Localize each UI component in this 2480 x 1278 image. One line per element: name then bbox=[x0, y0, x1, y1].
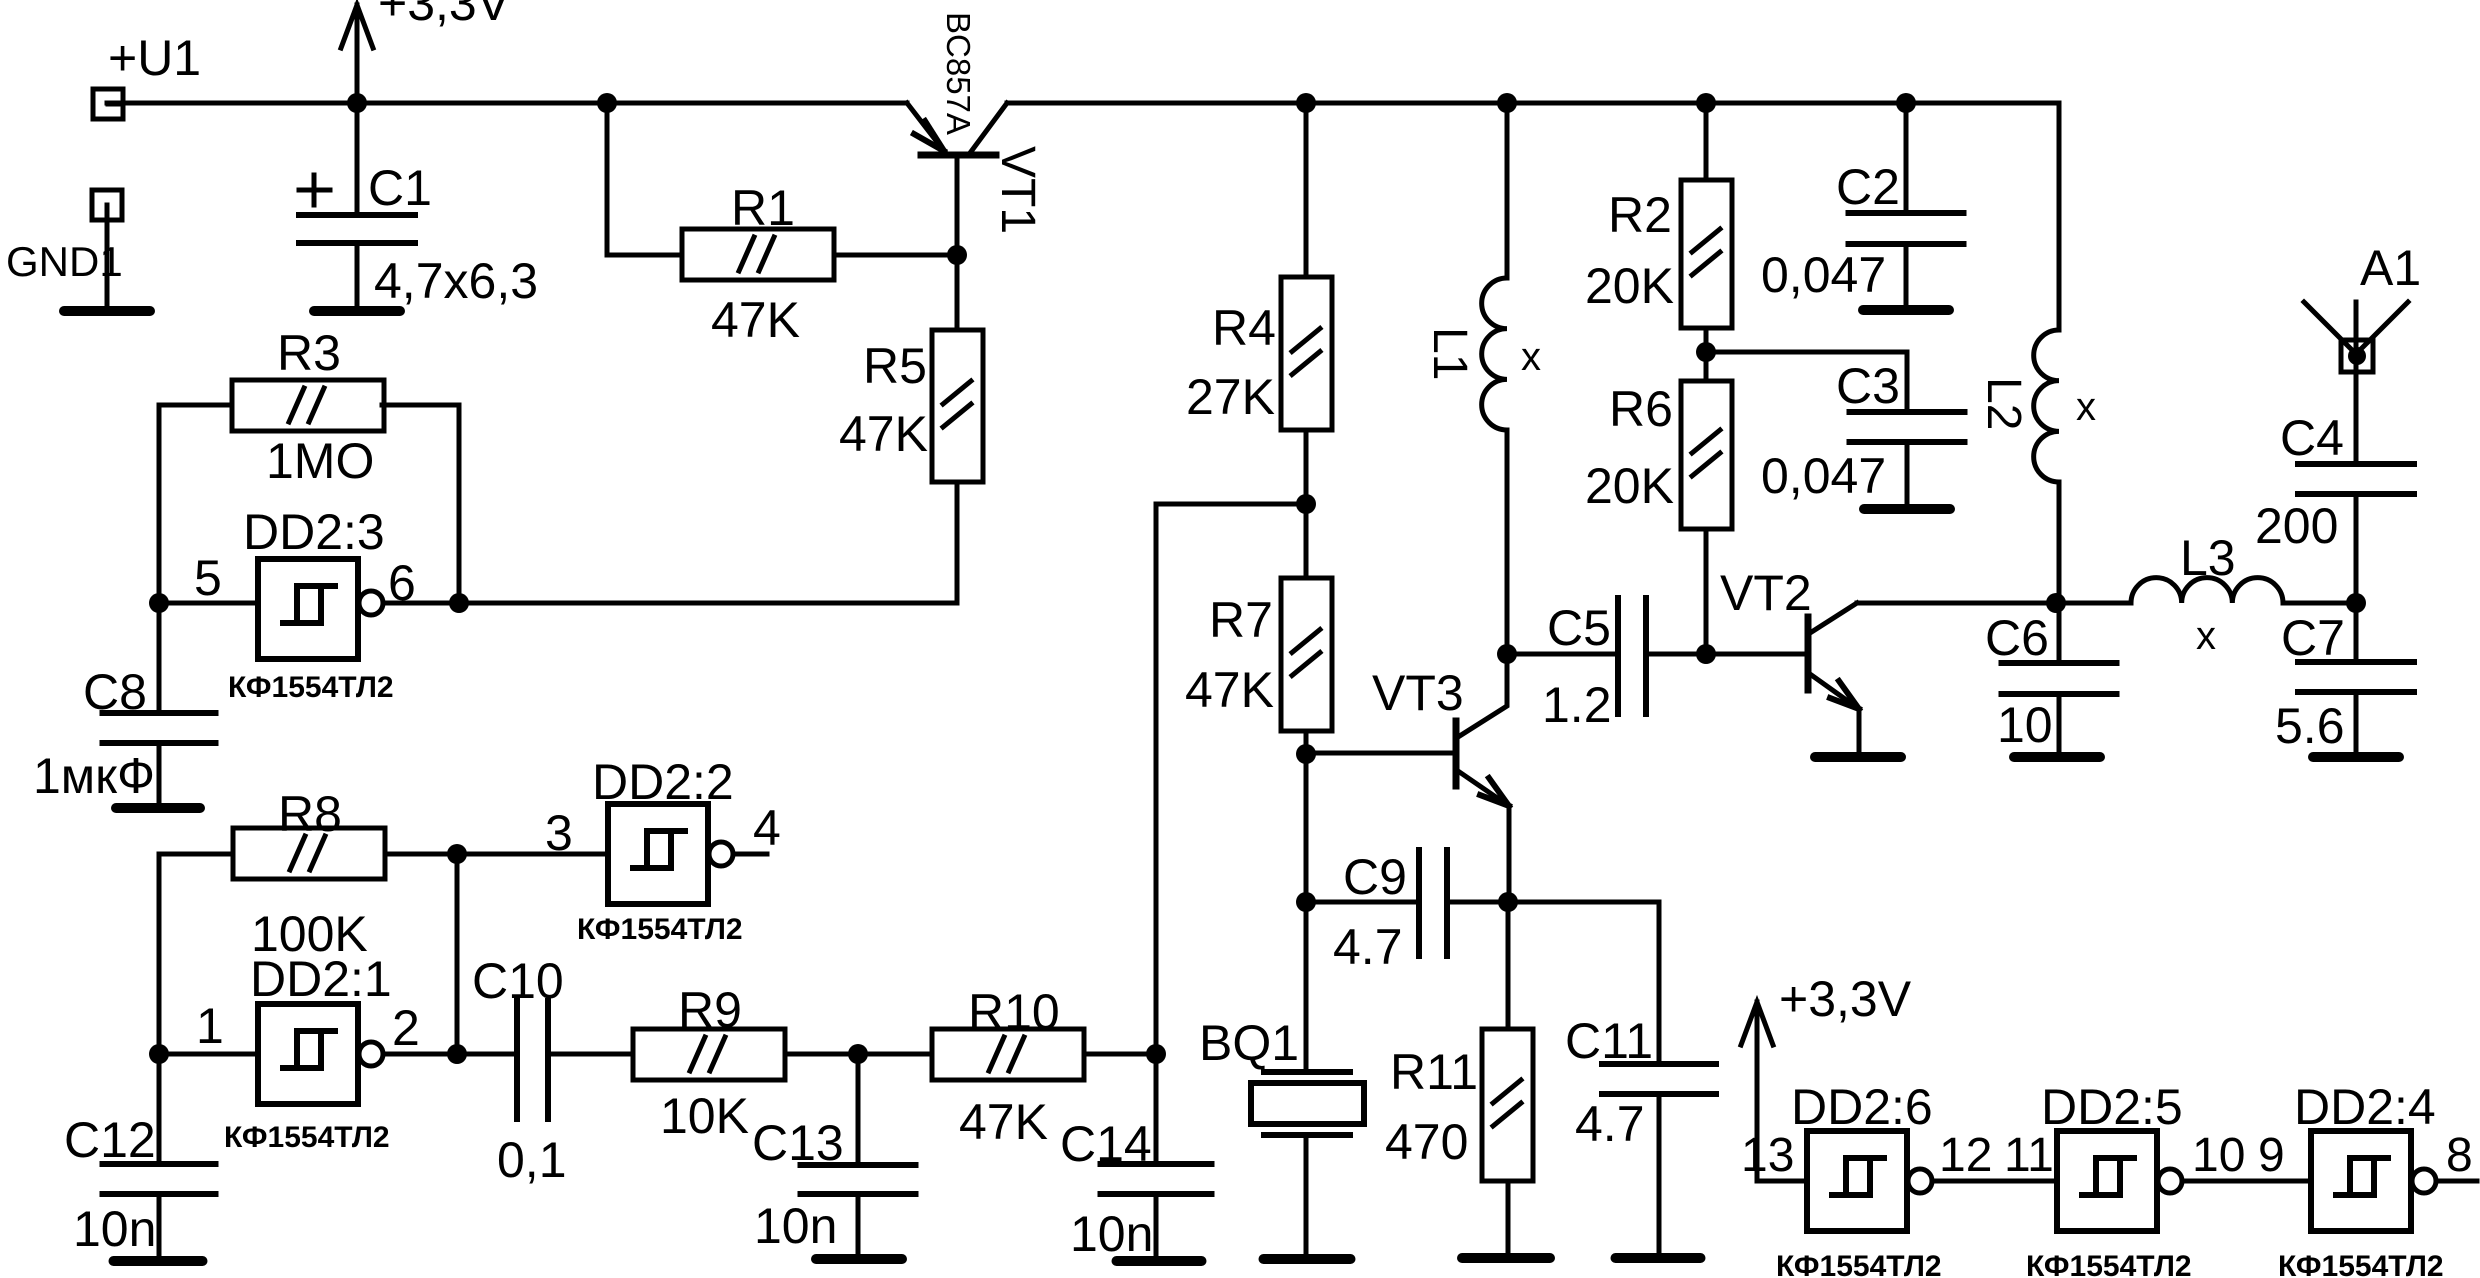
svg-text:12: 12 bbox=[1939, 1129, 1992, 1182]
svg-text:R5: R5 bbox=[863, 338, 927, 394]
ground C13 bbox=[816, 1254, 902, 1264]
wire VT2 base bbox=[1706, 652, 1806, 657]
svg-text:27K: 27K bbox=[1186, 369, 1275, 425]
ground C7 bbox=[2313, 752, 2399, 762]
svg-text:6: 6 bbox=[388, 555, 416, 611]
capacitor C14 bbox=[1101, 1161, 1212, 1167]
svg-text:R7: R7 bbox=[1209, 592, 1273, 648]
capacitor C11 bbox=[1602, 1061, 1716, 1067]
schmitt DD2:3 bbox=[258, 559, 358, 659]
svg-text:КФ1554ТЛ2: КФ1554ТЛ2 bbox=[577, 913, 743, 946]
svg-text:10n: 10n bbox=[73, 1201, 156, 1257]
svg-text:0,1: 0,1 bbox=[497, 1132, 567, 1188]
svg-text:2: 2 bbox=[392, 1000, 420, 1056]
svg-text:0,047: 0,047 bbox=[1761, 247, 1886, 303]
svg-text:L1: L1 bbox=[1423, 327, 1476, 380]
svg-text:R10: R10 bbox=[968, 984, 1060, 1040]
svg-text:+U1: +U1 bbox=[108, 30, 201, 86]
wire C5 right bbox=[1646, 652, 1706, 657]
resistor R7 bbox=[1281, 578, 1332, 731]
terminal +U1 bbox=[93, 89, 123, 119]
ground C14 bbox=[1117, 1256, 1202, 1266]
wire R2 to R6 bbox=[1704, 328, 1709, 381]
svg-text:R4: R4 bbox=[1212, 300, 1276, 356]
svg-text:8: 8 bbox=[2446, 1129, 2473, 1182]
wire C2 lead bbox=[1904, 103, 1909, 213]
inductor L1 bbox=[1505, 103, 1510, 278]
svg-text:10n: 10n bbox=[1070, 1206, 1153, 1262]
wire C9 left lead bbox=[1306, 900, 1419, 905]
svg-text:3: 3 bbox=[545, 805, 573, 861]
svg-text:+3,3V: +3,3V bbox=[378, 0, 511, 31]
node emitter net bbox=[1498, 892, 1518, 912]
node R9/R10/C13 bbox=[848, 1044, 868, 1064]
ground C12 bbox=[114, 1256, 203, 1266]
svg-text:C11: C11 bbox=[1565, 1013, 1653, 1069]
wire jog to C14 rail bbox=[1156, 504, 1306, 1054]
wire C10 to R9 bbox=[548, 1052, 633, 1057]
svg-text:4.7: 4.7 bbox=[1333, 919, 1403, 975]
ground GND1 bbox=[64, 306, 150, 316]
wire R7 top bbox=[1304, 504, 1309, 578]
svg-text:11: 11 bbox=[2004, 1129, 2054, 1182]
svg-text:R6: R6 bbox=[1609, 381, 1673, 437]
svg-text:10: 10 bbox=[1997, 697, 2053, 753]
transistor VT3 bbox=[1453, 721, 1460, 786]
inductor L2 bbox=[2034, 330, 2059, 482]
wire pin 10-9 bbox=[2182, 1179, 2311, 1184]
resistor R4 bbox=[1281, 277, 1332, 430]
schmitt DD2:4 bbox=[2311, 1131, 2411, 1231]
svg-text:КФ1554ТЛ2: КФ1554ТЛ2 bbox=[228, 671, 394, 704]
ground R11 bbox=[1462, 1253, 1550, 1263]
svg-text:C12: C12 bbox=[64, 1112, 156, 1168]
svg-text:10: 10 bbox=[2192, 1129, 2245, 1182]
capacitor C12 bbox=[103, 1161, 216, 1167]
node DD2:1 in bbox=[149, 1044, 169, 1064]
node L3/C4/C7 bbox=[2346, 593, 2366, 613]
wire C5 left bbox=[1507, 652, 1618, 657]
bubble DD2:3 bbox=[359, 591, 383, 615]
wire C6 lead bbox=[2057, 603, 2062, 662]
svg-text:10n: 10n bbox=[754, 1198, 837, 1254]
node R7/VT3 bbox=[1296, 744, 1316, 764]
svg-text:47K: 47K bbox=[839, 406, 928, 462]
svg-text:GND1: GND1 bbox=[6, 238, 123, 285]
node R2/R6 bbox=[1696, 342, 1716, 362]
svg-text:C3: C3 bbox=[1836, 358, 1900, 414]
bubble DD2:4 bbox=[2412, 1169, 2436, 1193]
node rail R1 bbox=[597, 93, 617, 113]
bubble DD2:6 bbox=[1908, 1169, 1932, 1193]
svg-text:R2: R2 bbox=[1608, 187, 1672, 243]
node L2/C6/L3 bbox=[2046, 593, 2066, 613]
resistor R8 bbox=[233, 828, 385, 879]
wire pin 6 bbox=[383, 601, 459, 606]
wire R8 right bbox=[385, 852, 457, 857]
svg-text:C7: C7 bbox=[2281, 610, 2345, 666]
svg-text:A1: A1 bbox=[2360, 240, 2421, 296]
power +3,3V top bbox=[355, 5, 360, 103]
svg-text:R3: R3 bbox=[277, 325, 341, 381]
svg-text:DD2:5: DD2:5 bbox=[2041, 1079, 2183, 1135]
node R8/DD2:2 bbox=[447, 844, 467, 864]
node R10/C14 bbox=[1146, 1044, 1166, 1064]
svg-text:5.6: 5.6 bbox=[2275, 698, 2345, 754]
svg-text:9: 9 bbox=[2258, 1129, 2285, 1182]
capacitor C7 bbox=[2298, 659, 2414, 665]
resistor R1 bbox=[682, 229, 834, 280]
svg-text:1: 1 bbox=[196, 998, 224, 1054]
node L1/VT3/C5 bbox=[1497, 644, 1517, 664]
ground C11 bbox=[1616, 1253, 1701, 1263]
svg-text:+3,3V: +3,3V bbox=[1779, 971, 1912, 1027]
ground C8 bbox=[116, 803, 200, 813]
svg-text:R8: R8 bbox=[278, 786, 342, 842]
wire VT3 base bbox=[1306, 751, 1456, 756]
inductor L3 bbox=[2056, 601, 2131, 606]
bubble DD2:2 bbox=[709, 842, 733, 866]
node rail R2 bbox=[1696, 93, 1716, 113]
svg-text:5: 5 bbox=[194, 550, 222, 606]
wire pin 1 bbox=[159, 1052, 258, 1057]
svg-text:L2: L2 bbox=[1977, 377, 2030, 430]
svg-text:C2: C2 bbox=[1836, 159, 1900, 215]
capacitor C2 bbox=[1849, 210, 1964, 216]
capacitor C1 bbox=[299, 212, 415, 218]
svg-text:4.7: 4.7 bbox=[1575, 1096, 1645, 1152]
wire +U1 to VT1 bbox=[107, 101, 907, 106]
transistor VT2 bbox=[1805, 617, 1812, 690]
wire R5 to DD2:3 out bbox=[459, 482, 957, 603]
wire top rail right bbox=[1007, 103, 2059, 330]
node rail L1 bbox=[1497, 93, 1517, 113]
svg-text:L3: L3 bbox=[2180, 530, 2236, 586]
wire C9 right lead bbox=[1447, 900, 1509, 905]
svg-text:200: 200 bbox=[2255, 498, 2338, 554]
svg-text:47K: 47K bbox=[1185, 662, 1274, 718]
wire pin 5 bbox=[159, 601, 258, 606]
capacitor C9 bbox=[1416, 850, 1422, 956]
wire pin 4 bbox=[733, 852, 767, 857]
svg-text:C1: C1 bbox=[368, 160, 432, 216]
capacitor C8 bbox=[103, 710, 216, 716]
wire C13 lead bbox=[856, 1054, 861, 1165]
svg-text:1.2: 1.2 bbox=[1542, 677, 1612, 733]
wire R1 to base bbox=[834, 253, 957, 258]
wire R11 top bbox=[1506, 902, 1511, 1029]
svg-text:DD2:2: DD2:2 bbox=[592, 754, 734, 810]
node rail R4 bbox=[1296, 93, 1316, 113]
svg-text:R11: R11 bbox=[1390, 1044, 1478, 1100]
svg-text:BQ1: BQ1 bbox=[1199, 1015, 1299, 1071]
wire to R10 bbox=[858, 1052, 932, 1057]
capacitor C6 bbox=[2002, 660, 2117, 666]
node DD2:3 in bbox=[149, 593, 169, 613]
wire pin 12-11 bbox=[1932, 1179, 2057, 1184]
svg-text:R1: R1 bbox=[731, 180, 795, 236]
svg-text:DD2:1: DD2:1 bbox=[250, 951, 392, 1007]
wire pin 8 bbox=[2436, 1179, 2477, 1184]
svg-text:1MO: 1MO bbox=[266, 433, 374, 489]
resistor R5 bbox=[932, 330, 983, 482]
svg-text:470: 470 bbox=[1385, 1114, 1468, 1170]
wire C12 lead bbox=[157, 1054, 162, 1164]
wire R6 bottom bbox=[1704, 529, 1709, 654]
svg-text:BC857A: BC857A bbox=[940, 12, 977, 135]
bubble DD2:1 bbox=[359, 1042, 383, 1066]
svg-text:КФ1554ТЛ2: КФ1554ТЛ2 bbox=[2278, 1250, 2444, 1278]
ground BQ1 bbox=[1264, 1254, 1351, 1264]
wire C7 lead bbox=[2354, 603, 2359, 662]
node R4/R7 bbox=[1296, 494, 1316, 514]
ground C2 bbox=[1863, 305, 1949, 315]
node VT1 base bbox=[947, 245, 967, 265]
svg-text:10K: 10K bbox=[660, 1088, 749, 1144]
svg-text:C4: C4 bbox=[2280, 410, 2344, 466]
svg-text:13: 13 bbox=[1741, 1129, 1794, 1182]
wire to C11 bbox=[1508, 902, 1659, 1064]
ground VT2 bbox=[1815, 752, 1901, 762]
svg-text:DD2:3: DD2:3 bbox=[243, 504, 385, 560]
wire R11 bottom bbox=[1506, 1181, 1511, 1255]
capacitor C4 bbox=[2298, 461, 2414, 467]
svg-text:x: x bbox=[2196, 614, 2216, 658]
svg-text:C9: C9 bbox=[1343, 849, 1407, 905]
power +3,3V bottom bbox=[1755, 1002, 1760, 1181]
resistor R2 bbox=[1681, 180, 1732, 328]
svg-text:DD2:6: DD2:6 bbox=[1791, 1079, 1933, 1135]
wire VT2 collector bbox=[1857, 601, 2056, 606]
wire R8 left bbox=[159, 854, 233, 1054]
wire pin 13 bbox=[1757, 1179, 1807, 1184]
svg-text:20K: 20K bbox=[1585, 258, 1674, 314]
ground C1 bbox=[314, 306, 400, 316]
svg-text:4: 4 bbox=[753, 800, 781, 856]
wire R7 bottom bbox=[1304, 731, 1309, 754]
svg-text:1мкФ: 1мкФ bbox=[33, 748, 155, 804]
capacitor C10 bbox=[514, 1001, 520, 1119]
wire DD2:2 node down bbox=[455, 854, 460, 1054]
schmitt DD2:1 bbox=[258, 1004, 358, 1104]
svg-text:0,047: 0,047 bbox=[1761, 448, 1886, 504]
wire R3 right bbox=[382, 405, 459, 603]
wire R4 top bbox=[1304, 103, 1309, 277]
svg-text:20K: 20K bbox=[1585, 458, 1674, 514]
wire R3 left bbox=[159, 405, 232, 603]
wire to C10 bbox=[457, 1052, 517, 1057]
svg-text:x: x bbox=[2076, 385, 2096, 429]
svg-text:DD2:4: DD2:4 bbox=[2294, 1079, 2436, 1135]
ground C6 bbox=[2014, 752, 2100, 762]
resistor R11 bbox=[1482, 1029, 1533, 1181]
node DD2:1 out bbox=[447, 1044, 467, 1064]
wire R9 right bbox=[785, 1052, 858, 1057]
svg-text:КФ1554ТЛ2: КФ1554ТЛ2 bbox=[224, 1121, 390, 1154]
wire C1 lead bbox=[355, 103, 360, 215]
svg-text:C5: C5 bbox=[1547, 600, 1611, 656]
polarity plus C1 bbox=[299, 188, 330, 193]
svg-text:VT2: VT2 bbox=[1720, 565, 1812, 621]
wire R10 right bbox=[1084, 1052, 1156, 1057]
resistor R9 bbox=[633, 1029, 785, 1080]
svg-text:КФ1554ТЛ2: КФ1554ТЛ2 bbox=[1776, 1250, 1942, 1278]
capacitor C5 bbox=[1615, 598, 1621, 714]
resistor R10 bbox=[932, 1029, 1084, 1080]
svg-text:47K: 47K bbox=[959, 1094, 1048, 1150]
wire C14 lead bbox=[1154, 1054, 1159, 1164]
svg-text:C10: C10 bbox=[472, 953, 564, 1009]
schmitt DD2:6 bbox=[1807, 1131, 1907, 1231]
bubble DD2:5 bbox=[2158, 1169, 2182, 1193]
svg-text:47K: 47K bbox=[711, 292, 800, 348]
node R6/C5/VT2 bbox=[1696, 644, 1716, 664]
wire C8 lead bbox=[157, 603, 162, 713]
wire R1 branch bbox=[607, 103, 682, 255]
svg-text:C13: C13 bbox=[752, 1115, 844, 1171]
svg-text:C6: C6 bbox=[1985, 610, 2049, 666]
resistor R6 bbox=[1681, 381, 1732, 529]
svg-text:C8: C8 bbox=[83, 664, 147, 720]
svg-text:x: x bbox=[1521, 335, 1541, 379]
svg-text:VT1: VT1 bbox=[991, 146, 1044, 234]
svg-text:R9: R9 bbox=[678, 982, 742, 1038]
wire to C3 bbox=[1706, 352, 1907, 412]
crystal BQ1 bbox=[1264, 1069, 1350, 1075]
capacitor C3 bbox=[1850, 409, 1965, 415]
resistor R3 bbox=[232, 380, 384, 431]
svg-text:4,7x6,3: 4,7x6,3 bbox=[374, 253, 538, 309]
schmitt DD2:2 bbox=[608, 804, 708, 904]
wire BQ1 top bbox=[1304, 902, 1309, 1070]
node C9 left bbox=[1296, 892, 1316, 912]
ground C3 bbox=[1864, 504, 1950, 514]
node rail C1 bbox=[347, 93, 367, 113]
schmitt DD2:5 bbox=[2057, 1131, 2157, 1231]
wire pin 3 bbox=[457, 852, 608, 857]
svg-text:C14: C14 bbox=[1060, 1116, 1152, 1172]
svg-text:КФ1554ТЛ2: КФ1554ТЛ2 bbox=[2026, 1250, 2192, 1278]
capacitor C13 bbox=[801, 1162, 916, 1168]
antenna A1 bbox=[2304, 302, 2356, 354]
terminal GND1 bbox=[92, 190, 122, 220]
svg-text:VT3: VT3 bbox=[1372, 665, 1464, 721]
wire R4 bottom bbox=[1304, 430, 1309, 504]
wire pin 2 bbox=[383, 1052, 457, 1057]
transistor VT1 bbox=[921, 152, 996, 159]
node rail C2 bbox=[1896, 93, 1916, 113]
wire R2 top bbox=[1704, 103, 1709, 180]
node DD2:3 out bbox=[449, 593, 469, 613]
wire VT3 emitter net bbox=[1304, 754, 1309, 902]
